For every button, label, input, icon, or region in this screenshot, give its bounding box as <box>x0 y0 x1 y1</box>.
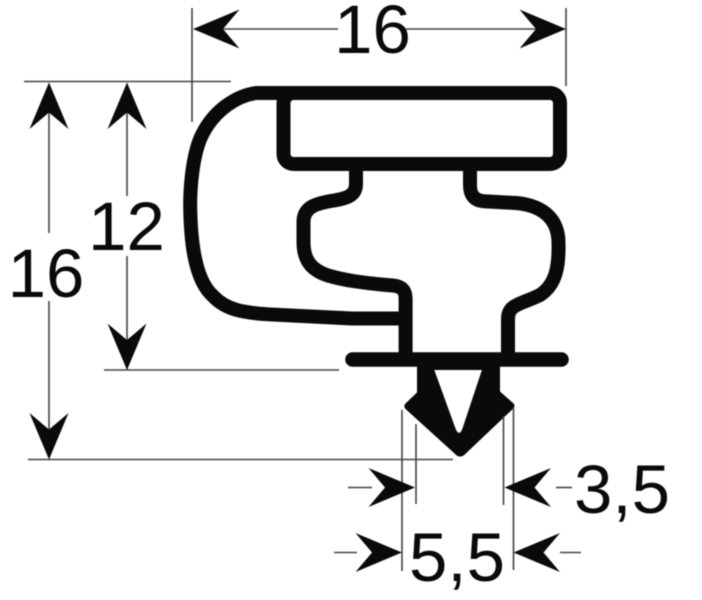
3,5 right tail <box>556 487 572 489</box>
svg-text:16: 16 <box>8 235 85 312</box>
svg-text:12: 12 <box>88 188 165 265</box>
3,5 right extension <box>503 416 505 505</box>
top 16 right arrow <box>520 10 567 49</box>
3,5 right arrow <box>505 468 552 507</box>
dimension thin lines <box>24 8 581 571</box>
gasket dart barb (push-in spear) <box>404 360 514 457</box>
12 tick line <box>104 369 339 371</box>
5,5 left arrow <box>356 533 403 572</box>
left 16 bottom arrow <box>30 413 69 460</box>
12 top arrow <box>108 83 147 130</box>
svg-text:16: 16 <box>334 0 411 68</box>
top 16 dim line right part <box>406 28 562 30</box>
gasket profile left balloon wall <box>190 93 407 319</box>
svg-text:5,5: 5,5 <box>409 519 505 596</box>
left 16 top arrow <box>30 83 69 130</box>
left 16 dim line upper <box>48 84 50 233</box>
left 16 dim line lower <box>48 301 50 458</box>
12 dim line upper <box>126 84 128 196</box>
gasket profile bulb right wall and stem right wall <box>470 159 559 353</box>
3,5 left tail <box>348 487 372 489</box>
5,5 right extension <box>513 407 515 570</box>
top 16 right extension line <box>565 8 567 86</box>
12 bottom arrow <box>108 324 147 371</box>
gasket dart white notch <box>434 370 482 433</box>
top 16 left arrow <box>193 10 240 49</box>
12 dim line lower <box>126 256 128 369</box>
5,5 right tail <box>560 552 581 554</box>
3,5 left extension <box>415 424 417 504</box>
bottom 16 tick line <box>28 459 453 461</box>
gasket mounting flange <box>353 352 562 367</box>
5,5 left tail <box>334 552 357 554</box>
svg-text:3,5: 3,5 <box>574 451 670 528</box>
gasket profile bulb left wall and stem left wall <box>304 159 406 353</box>
top 16 left extension line <box>191 8 193 122</box>
5,5 right arrow <box>514 533 561 572</box>
3,5 left arrow <box>369 468 416 507</box>
5,5 left extension <box>401 410 403 571</box>
arrowheads <box>30 10 567 573</box>
gasket profile top rectangle <box>284 93 561 164</box>
top tick line <box>24 81 231 83</box>
top 16 dim line left part <box>196 28 338 30</box>
